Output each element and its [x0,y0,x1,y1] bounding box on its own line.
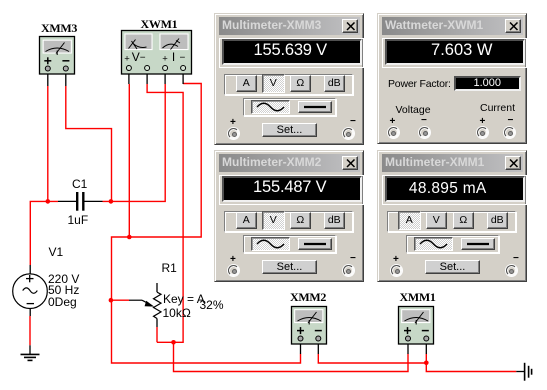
wire R1 bottom node down to line B to XMM1 plus [174,342,409,371]
wire XWM1 V+ down to node [128,84,130,237]
wire R1 bottom red segment [156,327,158,342]
panel Multimeter-XMM3 [214,13,364,145]
node junction XMM1 minus [424,361,429,366]
label 220 V [48,272,79,286]
label 32% [200,298,224,312]
label C1 [72,177,87,191]
svg-text:−: − [180,53,186,64]
node junction C1 right [109,199,114,204]
capacitor C1 [58,192,103,211]
source V1 [13,265,48,316]
wire XWM1 V- route to R1 bottom [147,84,183,342]
label V1 [49,245,64,259]
panel Multimeter-XMM2 [214,150,364,282]
label XMM1 [400,290,436,305]
wattmeter icon XWM1 [122,31,192,75]
wire XWM1 I- long route to wiper node then XMM2 plus [112,84,301,364]
wire XMM2 minus to XMM1 minus junction [318,354,426,363]
R1 wiper arrowhead [145,301,155,307]
svg-text:−: − [140,53,146,64]
multimeter icon XMM1 [399,307,434,345]
svg-text:+: + [162,54,168,65]
svg-text:+: + [124,54,130,65]
label 10kOhm [163,306,191,320]
panel Multimeter-XMM1 [377,150,527,282]
wire black stubs at instrument terminals [48,71,427,354]
label 50 Hz [48,283,79,297]
label 0Deg [48,295,77,309]
wire XMM3 plus down to C1-left node [47,86,49,201]
label 1uF [68,213,89,227]
svg-text:I: I [172,50,175,64]
label XMM3 [41,21,77,36]
label Key = A [163,292,205,306]
node junction wiper [109,298,114,303]
wire XMM3 minus route down and right [66,86,112,201]
wire V1 bottom red [29,316,31,345]
wire C1 right lead to XWM1 I+ riser [103,84,166,201]
wire wiper stub [111,299,129,301]
ground right (rotated) [516,363,531,381]
label XMM2 [290,290,326,305]
panel Wattmeter-XWM1 [377,13,527,144]
svg-text:V: V [132,50,140,64]
multimeter icon XMM3 [40,37,75,75]
node junction R1 bottom [171,340,176,345]
node junction C1 left [46,199,51,204]
label XWM1 [141,17,178,32]
potentiometer R1 [129,283,161,327]
ground at V1 [21,345,40,360]
node junction V+ [127,235,132,240]
multimeter icon XMM2 [292,307,327,345]
label R1 [162,261,177,275]
wire V1 riser up and right to C1 [30,201,58,265]
wire XMM1 minus down to right ground [426,354,516,372]
